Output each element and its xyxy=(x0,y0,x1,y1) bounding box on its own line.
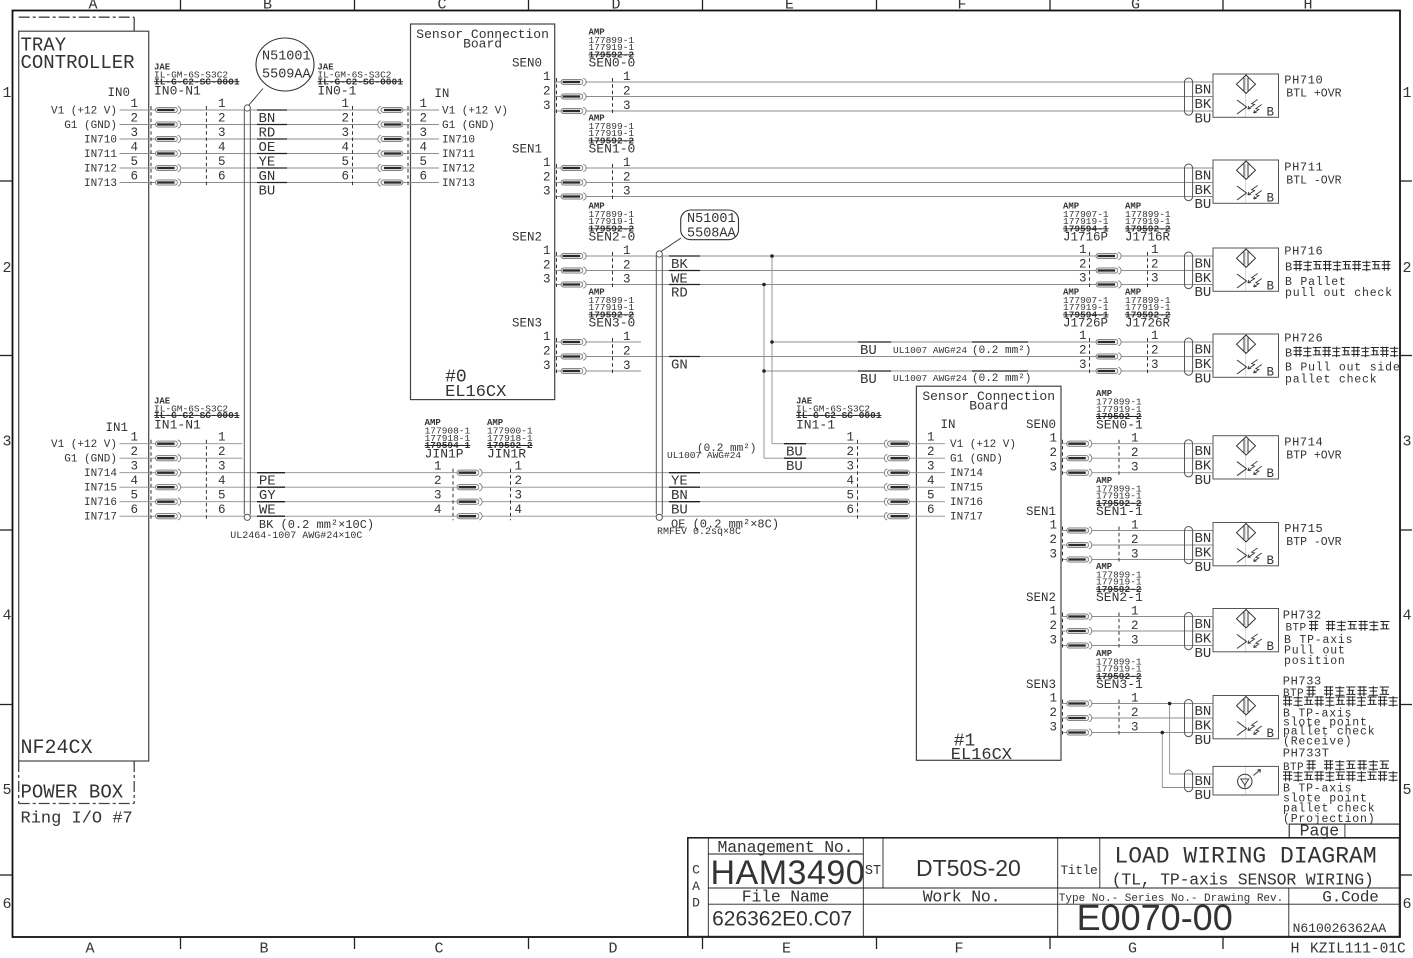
svg-text:1: 1 xyxy=(515,460,523,474)
svg-text:WE: WE xyxy=(259,503,276,519)
svg-text:Title: Title xyxy=(1060,863,1097,878)
svg-text:626362E0.C07: 626362E0.C07 xyxy=(712,908,852,931)
svg-text:PH726: PH726 xyxy=(1284,332,1323,346)
svg-text:N51001: N51001 xyxy=(262,50,311,65)
svg-text:IN712: IN712 xyxy=(84,164,117,176)
svg-text:BU: BU xyxy=(1195,560,1212,576)
svg-text:B: B xyxy=(1267,727,1275,741)
svg-text:BU: BU xyxy=(1195,371,1212,387)
svg-text:1: 1 xyxy=(1151,243,1159,257)
svg-text:SEN2: SEN2 xyxy=(512,231,542,245)
svg-text:6: 6 xyxy=(927,503,935,517)
svg-text:2: 2 xyxy=(1079,344,1087,358)
svg-text:B: B xyxy=(1267,366,1275,380)
svg-text:4: 4 xyxy=(846,474,854,488)
svg-text:4: 4 xyxy=(218,474,226,488)
svg-text:5: 5 xyxy=(341,155,349,169)
svg-text:2: 2 xyxy=(1049,446,1057,460)
svg-text:3: 3 xyxy=(623,359,631,373)
svg-text:IN715: IN715 xyxy=(84,483,117,495)
svg-text:EL16CX: EL16CX xyxy=(951,746,1012,765)
svg-text:2: 2 xyxy=(1402,260,1411,277)
svg-text:RD: RD xyxy=(671,286,688,302)
svg-text:BTP -OVR: BTP -OVR xyxy=(1286,536,1341,549)
svg-text:BU: BU xyxy=(1195,111,1212,127)
svg-text:BU: BU xyxy=(1195,788,1212,804)
svg-text:IN714: IN714 xyxy=(950,468,983,480)
svg-text:3: 3 xyxy=(130,126,138,140)
svg-text:1: 1 xyxy=(2,85,11,102)
svg-text:3: 3 xyxy=(1151,358,1159,372)
svg-text:2: 2 xyxy=(623,171,631,185)
svg-text:GN: GN xyxy=(671,358,688,374)
svg-text:V1 (+12 V): V1 (+12 V) xyxy=(950,439,1016,451)
svg-text:G: G xyxy=(1131,0,1140,14)
svg-text:D: D xyxy=(608,941,617,958)
svg-text:KZIL111-01C: KZIL111-01C xyxy=(1310,942,1406,958)
svg-text:PH732: PH732 xyxy=(1283,609,1322,623)
svg-text:DT50S-20: DT50S-20 xyxy=(916,855,1021,881)
svg-text:B: B xyxy=(1285,261,1292,275)
svg-text:B: B xyxy=(1285,347,1292,361)
svg-text:BU: BU xyxy=(1195,473,1212,489)
svg-text:CONTROLLER: CONTROLLER xyxy=(21,52,135,74)
svg-text:E: E xyxy=(785,0,794,14)
svg-text:3: 3 xyxy=(623,185,631,199)
svg-text:3: 3 xyxy=(846,460,854,474)
svg-text:IN715: IN715 xyxy=(950,483,983,495)
svg-text:G1 (GND): G1 (GND) xyxy=(950,454,1003,466)
svg-text:D: D xyxy=(611,0,620,14)
svg-text:PH710: PH710 xyxy=(1284,74,1323,88)
svg-text:V1 (+12 V): V1 (+12 V) xyxy=(442,106,508,118)
svg-text:Board: Board xyxy=(463,37,502,52)
svg-text:SEN3-1: SEN3-1 xyxy=(1096,677,1143,692)
svg-text:B: B xyxy=(1267,640,1275,654)
svg-text:BU: BU xyxy=(1195,285,1212,301)
svg-text:1: 1 xyxy=(846,431,854,445)
svg-text:BTP: BTP xyxy=(1286,623,1307,635)
svg-text:2: 2 xyxy=(130,112,138,126)
svg-text:1: 1 xyxy=(1049,519,1057,533)
svg-text:pallet check: pallet check xyxy=(1285,374,1377,387)
svg-text:UL1007 AWG#24: UL1007 AWG#24 xyxy=(667,450,741,461)
svg-text:UL2464-1007 AWG#24×10C: UL2464-1007 AWG#24×10C xyxy=(230,531,362,542)
svg-text:4: 4 xyxy=(420,141,428,155)
svg-text:V1 (+12 V): V1 (+12 V) xyxy=(51,439,117,451)
svg-text:3: 3 xyxy=(515,489,523,503)
svg-text:2: 2 xyxy=(2,260,11,277)
svg-text:6: 6 xyxy=(341,170,349,184)
svg-text:J1726P: J1726P xyxy=(1063,317,1108,331)
svg-text:C: C xyxy=(692,863,700,878)
svg-text:SEN0: SEN0 xyxy=(512,57,542,71)
svg-text:5: 5 xyxy=(1402,782,1411,799)
svg-text:5: 5 xyxy=(2,782,11,799)
svg-text:4: 4 xyxy=(218,141,226,155)
svg-text:B: B xyxy=(263,0,272,14)
svg-text:V1 (+12 V): V1 (+12 V) xyxy=(51,106,117,118)
svg-text:Board: Board xyxy=(969,399,1008,414)
svg-text:3: 3 xyxy=(623,99,631,113)
svg-text:B: B xyxy=(1267,280,1275,294)
svg-text:(0.2 mm²): (0.2 mm²) xyxy=(972,373,1031,385)
svg-text:H: H xyxy=(1290,941,1299,958)
svg-text:RMFEV 0.2sq×8C: RMFEV 0.2sq×8C xyxy=(657,527,741,538)
svg-text:IN1-1: IN1-1 xyxy=(796,417,835,432)
svg-text:3: 3 xyxy=(1079,358,1087,372)
svg-text:5: 5 xyxy=(218,155,226,169)
svg-text:ST: ST xyxy=(865,864,881,879)
svg-text:3: 3 xyxy=(218,460,226,474)
svg-text:2: 2 xyxy=(543,171,551,185)
svg-text:5: 5 xyxy=(846,489,854,503)
svg-text:2: 2 xyxy=(1049,619,1057,633)
svg-text:2: 2 xyxy=(927,445,935,459)
svg-text:3: 3 xyxy=(1049,461,1057,475)
svg-text:3: 3 xyxy=(1049,548,1057,562)
svg-text:BU: BU xyxy=(671,503,688,519)
svg-text:IN1-N1: IN1-N1 xyxy=(154,417,201,432)
svg-text:B: B xyxy=(1267,192,1275,206)
svg-text:2: 2 xyxy=(846,445,854,459)
svg-text:5: 5 xyxy=(927,489,935,503)
svg-text:4: 4 xyxy=(130,474,138,488)
svg-text:JIN1P: JIN1P xyxy=(425,446,464,461)
svg-text:6: 6 xyxy=(218,503,226,517)
svg-text:PH733: PH733 xyxy=(1283,675,1322,689)
svg-text:SEN1-1: SEN1-1 xyxy=(1096,504,1143,519)
svg-text:PH714: PH714 xyxy=(1284,436,1323,450)
svg-text:B: B xyxy=(1267,467,1275,481)
svg-text:G1 (GND): G1 (GND) xyxy=(64,120,117,132)
svg-text:3: 3 xyxy=(927,460,935,474)
svg-text:1: 1 xyxy=(543,156,551,170)
svg-text:2: 2 xyxy=(543,345,551,359)
svg-text:N51001: N51001 xyxy=(687,212,736,227)
svg-text:SEN0-0: SEN0-0 xyxy=(589,56,636,71)
svg-text:SEN2: SEN2 xyxy=(1026,591,1056,605)
svg-text:1: 1 xyxy=(1151,329,1159,343)
svg-text:3: 3 xyxy=(1151,272,1159,286)
svg-text:1: 1 xyxy=(1402,85,1411,102)
svg-text:J1716P: J1716P xyxy=(1063,231,1108,245)
svg-text:IN711: IN711 xyxy=(84,149,117,161)
svg-text:(0.2 mm²): (0.2 mm²) xyxy=(972,345,1031,357)
svg-text:IN710: IN710 xyxy=(84,135,117,147)
svg-text:IN711: IN711 xyxy=(442,149,475,161)
svg-text:3: 3 xyxy=(543,273,551,287)
svg-text:3: 3 xyxy=(130,460,138,474)
svg-text:2: 2 xyxy=(1131,533,1139,547)
svg-text:1: 1 xyxy=(1049,432,1057,446)
svg-text:1: 1 xyxy=(1131,432,1139,446)
svg-text:1: 1 xyxy=(218,431,226,445)
svg-text:F: F xyxy=(957,0,966,14)
svg-text:1: 1 xyxy=(623,156,631,170)
svg-text:3: 3 xyxy=(1131,548,1139,562)
svg-text:3: 3 xyxy=(1402,434,1411,451)
svg-text:SEN3: SEN3 xyxy=(512,317,542,331)
svg-text:J1726R: J1726R xyxy=(1125,317,1171,331)
svg-text:3: 3 xyxy=(341,126,349,140)
svg-text:Page: Page xyxy=(1300,822,1340,841)
svg-text:pull out check: pull out check xyxy=(1285,287,1393,300)
svg-text:3: 3 xyxy=(1049,721,1057,735)
svg-text:NF24CX: NF24CX xyxy=(21,737,93,760)
svg-text:SEN1: SEN1 xyxy=(1026,505,1056,519)
svg-text:IN0-1: IN0-1 xyxy=(317,84,356,99)
svg-text:position: position xyxy=(1284,655,1346,668)
svg-text:BU: BU xyxy=(1195,733,1212,749)
svg-text:2: 2 xyxy=(1131,619,1139,633)
svg-text:BU: BU xyxy=(860,372,877,388)
svg-text:IN: IN xyxy=(434,87,449,101)
svg-text:5508AA: 5508AA xyxy=(687,227,737,242)
svg-text:IN0: IN0 xyxy=(107,86,130,100)
svg-text:2: 2 xyxy=(420,112,428,126)
svg-text:A: A xyxy=(85,941,94,958)
svg-text:4: 4 xyxy=(515,503,523,517)
svg-text:PH715: PH715 xyxy=(1284,522,1323,536)
svg-text:2: 2 xyxy=(218,112,226,126)
svg-text:J1716R: J1716R xyxy=(1125,231,1171,245)
svg-text:2: 2 xyxy=(218,445,226,459)
svg-text:5: 5 xyxy=(130,155,138,169)
svg-text:F: F xyxy=(954,941,963,958)
svg-text:IN1: IN1 xyxy=(105,421,128,435)
svg-text:B: B xyxy=(1267,554,1275,568)
svg-text:1: 1 xyxy=(543,244,551,258)
svg-text:6: 6 xyxy=(2,896,11,913)
svg-text:3: 3 xyxy=(1079,272,1087,286)
svg-text:SEN1-0: SEN1-0 xyxy=(589,142,636,157)
svg-text:PH733T: PH733T xyxy=(1283,747,1330,761)
svg-text:1: 1 xyxy=(130,431,138,445)
svg-text:G: G xyxy=(1128,941,1137,958)
svg-text:2: 2 xyxy=(1079,258,1087,272)
svg-text:B: B xyxy=(259,941,268,958)
svg-text:6: 6 xyxy=(1402,896,1411,913)
svg-text:1: 1 xyxy=(341,97,349,111)
svg-text:1: 1 xyxy=(1049,605,1057,619)
svg-text:G1 (GND): G1 (GND) xyxy=(64,454,117,466)
svg-text:IN710: IN710 xyxy=(442,135,475,147)
svg-text:Work No.: Work No. xyxy=(923,888,1001,907)
svg-text:PH716: PH716 xyxy=(1284,245,1323,259)
svg-text:SEN2-1: SEN2-1 xyxy=(1096,590,1143,605)
svg-text:1: 1 xyxy=(927,431,935,445)
svg-text:2: 2 xyxy=(515,474,523,488)
svg-text:IN712: IN712 xyxy=(442,164,475,176)
svg-text:2: 2 xyxy=(434,474,442,488)
svg-text:2: 2 xyxy=(623,85,631,99)
svg-text:6: 6 xyxy=(130,170,138,184)
svg-text:3: 3 xyxy=(1131,461,1139,475)
svg-text:4: 4 xyxy=(927,474,935,488)
svg-text:SEN1: SEN1 xyxy=(512,143,542,157)
svg-text:3: 3 xyxy=(218,126,226,140)
svg-text:1: 1 xyxy=(1079,243,1087,257)
svg-text:1: 1 xyxy=(623,330,631,344)
svg-text:IN0-N1: IN0-N1 xyxy=(154,84,201,99)
svg-text:5: 5 xyxy=(218,489,226,503)
svg-text:File Name: File Name xyxy=(742,888,829,907)
svg-text:2: 2 xyxy=(1049,706,1057,720)
svg-text:5509AA: 5509AA xyxy=(262,68,312,83)
svg-text:1: 1 xyxy=(623,244,631,258)
svg-text:IN717: IN717 xyxy=(84,512,117,524)
svg-text:BU: BU xyxy=(860,343,877,359)
svg-text:SEN0: SEN0 xyxy=(1026,418,1056,432)
svg-text:BU: BU xyxy=(1195,197,1212,213)
svg-text:2: 2 xyxy=(1131,446,1139,460)
svg-text:BTL +OVR: BTL +OVR xyxy=(1286,88,1341,101)
svg-text:BTP +OVR: BTP +OVR xyxy=(1286,450,1341,463)
svg-text:2: 2 xyxy=(1151,344,1159,358)
svg-text:A: A xyxy=(692,879,700,894)
svg-text:4: 4 xyxy=(2,608,11,625)
svg-text:HAM3490: HAM3490 xyxy=(711,854,866,892)
svg-text:IN713: IN713 xyxy=(84,178,117,190)
svg-text:UL1007 AWG#24: UL1007 AWG#24 xyxy=(893,345,967,356)
svg-text:3: 3 xyxy=(543,359,551,373)
svg-text:BK (0.2 mm²×10C): BK (0.2 mm²×10C) xyxy=(259,518,374,532)
svg-text:5: 5 xyxy=(420,155,428,169)
svg-text:SEN0-1: SEN0-1 xyxy=(1096,417,1143,432)
svg-text:E: E xyxy=(782,941,791,958)
svg-text:2: 2 xyxy=(543,85,551,99)
svg-text:H: H xyxy=(1303,0,1312,14)
svg-text:1: 1 xyxy=(1079,329,1087,343)
svg-text:SEN3-0: SEN3-0 xyxy=(589,316,636,331)
svg-text:3: 3 xyxy=(434,489,442,503)
svg-text:1: 1 xyxy=(434,460,442,474)
svg-text:POWER BOX: POWER BOX xyxy=(21,782,124,804)
svg-text:3: 3 xyxy=(2,434,11,451)
svg-text:IN: IN xyxy=(941,418,956,432)
svg-text:IN717: IN717 xyxy=(950,512,983,524)
svg-text:3: 3 xyxy=(1049,634,1057,648)
svg-text:IN713: IN713 xyxy=(442,178,475,190)
svg-text:2: 2 xyxy=(1151,258,1159,272)
svg-text:4: 4 xyxy=(1402,608,1411,625)
svg-text:IN716: IN716 xyxy=(950,497,983,509)
svg-text:3: 3 xyxy=(623,273,631,287)
svg-text:B: B xyxy=(1267,106,1275,120)
svg-text:1: 1 xyxy=(1131,692,1139,706)
svg-text:1: 1 xyxy=(543,330,551,344)
svg-text:3: 3 xyxy=(1131,721,1139,735)
svg-text:2: 2 xyxy=(543,259,551,273)
svg-text:2: 2 xyxy=(341,112,349,126)
svg-text:BU: BU xyxy=(786,459,803,475)
svg-text:4: 4 xyxy=(434,503,442,517)
svg-text:1: 1 xyxy=(543,70,551,84)
svg-text:EL16CX: EL16CX xyxy=(445,383,506,402)
svg-text:2: 2 xyxy=(130,445,138,459)
svg-text:6: 6 xyxy=(846,503,854,517)
svg-text:1: 1 xyxy=(130,97,138,111)
svg-text:IN714: IN714 xyxy=(84,468,117,480)
svg-text:6: 6 xyxy=(420,170,428,184)
svg-text:1: 1 xyxy=(623,70,631,84)
svg-text:3: 3 xyxy=(543,99,551,113)
svg-text:C: C xyxy=(437,0,446,14)
svg-text:1: 1 xyxy=(1049,692,1057,706)
svg-text:PH711: PH711 xyxy=(1284,161,1323,175)
svg-text:2: 2 xyxy=(623,345,631,359)
svg-text:C: C xyxy=(434,941,443,958)
svg-text:IN716: IN716 xyxy=(84,497,117,509)
svg-text:3: 3 xyxy=(543,185,551,199)
svg-text:3: 3 xyxy=(420,126,428,140)
svg-text:E0070-00: E0070-00 xyxy=(1077,897,1233,938)
svg-text:UL1007 AWG#24: UL1007 AWG#24 xyxy=(893,373,967,384)
svg-text:1: 1 xyxy=(1131,605,1139,619)
svg-text:4: 4 xyxy=(341,141,349,155)
svg-text:2: 2 xyxy=(623,259,631,273)
svg-text:1: 1 xyxy=(420,97,428,111)
svg-text:6: 6 xyxy=(218,170,226,184)
svg-text:Ring I/O #7: Ring I/O #7 xyxy=(21,810,133,829)
svg-text:3: 3 xyxy=(1131,634,1139,648)
svg-text:A: A xyxy=(88,0,97,14)
svg-text:G1 (GND): G1 (GND) xyxy=(442,120,495,132)
svg-text:4: 4 xyxy=(130,141,138,155)
svg-text:1: 1 xyxy=(218,97,226,111)
svg-text:6: 6 xyxy=(130,503,138,517)
svg-text:SEN3: SEN3 xyxy=(1026,678,1056,692)
svg-text:1: 1 xyxy=(1131,519,1139,533)
svg-text:BU: BU xyxy=(1195,646,1212,662)
svg-text:BU: BU xyxy=(259,184,276,200)
svg-text:5: 5 xyxy=(130,489,138,503)
svg-text:BTL -OVR: BTL -OVR xyxy=(1286,175,1341,188)
svg-text:LOAD WIRING DIAGRAM: LOAD WIRING DIAGRAM xyxy=(1114,844,1376,870)
svg-text:N610026362AA: N610026362AA xyxy=(1293,921,1387,936)
svg-text:SEN2-0: SEN2-0 xyxy=(589,230,636,245)
svg-text:2: 2 xyxy=(1049,533,1057,547)
svg-text:(TL, TP-axis SENSOR WIRING): (TL, TP-axis SENSOR WIRING) xyxy=(1112,871,1374,890)
svg-text:D: D xyxy=(692,896,700,911)
svg-text:JIN1R: JIN1R xyxy=(487,446,526,461)
svg-text:G.Code: G.Code xyxy=(1322,889,1378,907)
svg-text:2: 2 xyxy=(1131,706,1139,720)
